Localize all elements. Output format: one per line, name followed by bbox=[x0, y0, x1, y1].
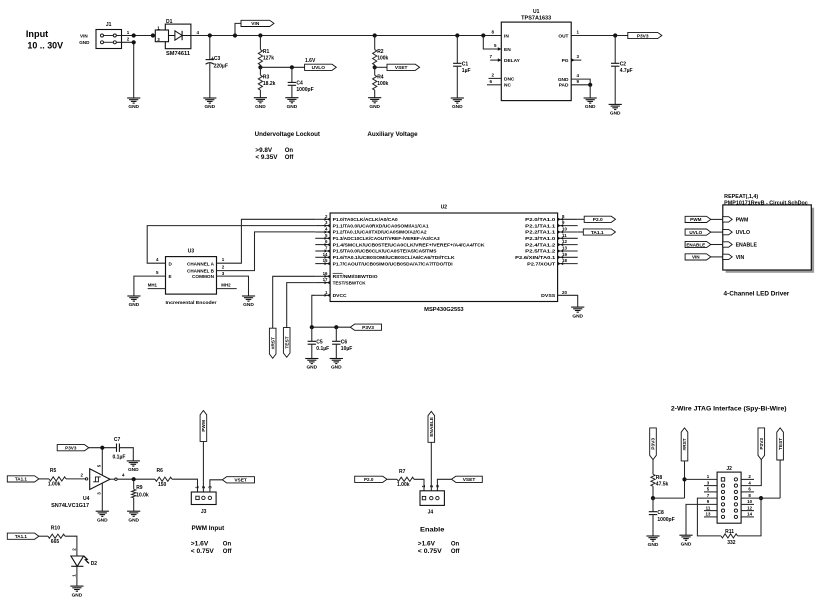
svg-text:P2.1/TA1.1: P2.1/TA1.1 bbox=[525, 223, 556, 228]
wire U2 RST to port bbox=[273, 276, 316, 328]
svg-text:DELAY: DELAY bbox=[504, 58, 521, 64]
svg-text:TEST: TEST bbox=[778, 438, 784, 450]
J2 pin 4 bbox=[734, 484, 737, 487]
svg-text:P1.1/TA0.0/UCA0RXD/UCA0SOMI/A1: P1.1/TA0.0/UCA0RXD/UCA0SOMI/A1/CA1 bbox=[333, 223, 429, 228]
svg-text:1.6V: 1.6V bbox=[305, 58, 316, 64]
U3 pin MH1 bbox=[148, 288, 166, 290]
svg-text:C1: C1 bbox=[462, 61, 469, 67]
pin 7 DELAY stub bbox=[490, 59, 501, 61]
U2 pin 19 P2.6 bbox=[558, 256, 578, 258]
svg-text:1.00k: 1.00k bbox=[48, 482, 61, 488]
svg-text:47.5k: 47.5k bbox=[656, 482, 669, 488]
wire main rail bbox=[191, 35, 501, 37]
svg-text:PWM Input: PWM Input bbox=[192, 525, 226, 532]
wire U2 TEST to port bbox=[287, 283, 316, 328]
U2 pin 3 P1.1 bbox=[315, 225, 330, 227]
U2 pin 1 DVCC bbox=[315, 294, 330, 296]
svg-text:R1: R1 bbox=[263, 49, 270, 55]
svg-text:P2.5/TA1.2: P2.5/TA1.2 bbox=[525, 249, 556, 254]
svg-text:C4: C4 bbox=[296, 81, 303, 87]
svg-text:DNC: DNC bbox=[504, 76, 515, 82]
wire U3 E to ground bbox=[134, 276, 166, 296]
wire U3 D to U2 P1.1 bbox=[147, 226, 315, 264]
U2 pin 7 P1.5 bbox=[315, 250, 330, 252]
svg-text:UVLO: UVLO bbox=[312, 65, 326, 71]
svg-text:P3V3: P3V3 bbox=[362, 325, 374, 331]
power flag P3V3 DVCC bbox=[350, 324, 381, 330]
svg-text:E: E bbox=[169, 274, 172, 279]
pin 3 PG stub bbox=[571, 59, 581, 61]
wire VSET to J3 bbox=[210, 480, 222, 496]
svg-text:R4: R4 bbox=[377, 74, 384, 80]
pin 2 DNC stub bbox=[489, 77, 502, 79]
capacitor C2 4.7uF bbox=[613, 33, 617, 37]
port VSET J4 bbox=[452, 476, 483, 482]
svg-text:#RST: #RST bbox=[270, 337, 276, 349]
ground U3 COMMON bbox=[242, 295, 255, 297]
node UVLO divider bbox=[258, 65, 262, 69]
wire U1 GND pin bbox=[571, 79, 590, 85]
capacitor C4 1000pF bbox=[290, 65, 294, 69]
svg-text:127k: 127k bbox=[263, 55, 274, 61]
wire #RST to J2 pin1 bbox=[684, 461, 686, 498]
ground U3 E bbox=[127, 295, 140, 297]
svg-text:10.0k: 10.0k bbox=[136, 492, 149, 498]
wire VSET to J4 bbox=[437, 479, 451, 496]
wire J1 pin1 to D1 bbox=[116, 35, 155, 37]
port PWM vertical bbox=[200, 411, 207, 442]
resistor R10 665 bbox=[39, 535, 48, 537]
svg-text:14: 14 bbox=[323, 252, 328, 257]
capacitor C3 220uF bbox=[208, 33, 212, 37]
connector J3 bbox=[191, 492, 216, 505]
J2 pin 7 bbox=[721, 497, 724, 500]
svg-text:VIN: VIN bbox=[80, 33, 88, 38]
U2 RST overline bbox=[333, 272, 343, 274]
encoder U3 bbox=[166, 257, 217, 295]
svg-text:GND: GND bbox=[287, 104, 298, 110]
resistor R9 10.0k bbox=[133, 479, 135, 489]
resistor R5 1.00k bbox=[39, 478, 49, 480]
capacitor C1 1uF bbox=[455, 33, 459, 37]
svg-text:18.2k: 18.2k bbox=[263, 81, 276, 87]
connector J1 bbox=[96, 30, 122, 49]
svg-text:< 0.75V: < 0.75V bbox=[418, 549, 442, 555]
power flag VIN bbox=[233, 33, 237, 37]
U2 pin 14 P1.6 bbox=[315, 256, 330, 258]
wire U3 COMMON to ground bbox=[217, 276, 249, 296]
wire J2 pin9 to ground bbox=[686, 504, 717, 535]
svg-text:DVSS: DVSS bbox=[541, 293, 555, 298]
port TA1.1 bbox=[578, 231, 584, 233]
sheet port UVLO bbox=[723, 229, 732, 234]
J2 pin 6 bbox=[734, 490, 737, 493]
connector J4 bbox=[420, 491, 444, 506]
ground C3 bbox=[203, 97, 216, 99]
svg-text:GND: GND bbox=[452, 104, 463, 110]
svg-text:Off: Off bbox=[285, 155, 295, 161]
svg-text:P1.2/TA0.1/UCA0TXD/UCA0SIMO/A2: P1.2/TA0.1/UCA0TXD/UCA0SIMO/A2/CA2 bbox=[333, 230, 427, 235]
svg-text:J1: J1 bbox=[106, 22, 112, 28]
port #RST vertical bbox=[269, 328, 276, 358]
wire EN branch bbox=[481, 33, 485, 37]
svg-text:P2.6/XIN/TA0.1: P2.6/XIN/TA0.1 bbox=[515, 255, 556, 260]
svg-text:1.00k: 1.00k bbox=[397, 482, 410, 488]
capacitor C5 0.1uF bbox=[311, 327, 313, 341]
U2 pin 8 P2.0 bbox=[558, 218, 578, 220]
svg-text:UVLO: UVLO bbox=[689, 230, 702, 235]
J2 pin 13 bbox=[721, 515, 724, 518]
ground R4 bbox=[368, 97, 381, 99]
svg-text:R11: R11 bbox=[725, 529, 734, 535]
U2 pin 4 P1.2 bbox=[315, 231, 330, 233]
svg-text:ENABLE: ENABLE bbox=[429, 416, 435, 437]
svg-text:NC: NC bbox=[504, 83, 511, 89]
svg-text:TEST: TEST bbox=[284, 336, 290, 348]
wire U1 PAD pin bbox=[571, 84, 590, 86]
svg-text:20: 20 bbox=[562, 290, 567, 295]
wire ENABLE to sheet bbox=[711, 244, 723, 246]
svg-text:VIN: VIN bbox=[692, 255, 700, 260]
U2 pin 6 P1.4 bbox=[315, 244, 330, 246]
svg-text:PWM: PWM bbox=[736, 217, 749, 223]
capacitor C7 0.1uF bbox=[116, 444, 118, 452]
U2 pin 13 P2.5 bbox=[558, 250, 578, 252]
svg-text:GND: GND bbox=[72, 592, 83, 598]
svg-text:P1.7/CAOUT/UCB0SIMO/UCB0SDA/A7: P1.7/CAOUT/UCB0SIMO/UCB0SDA/A7/CA7/TDO/T… bbox=[333, 261, 453, 266]
svg-text:R9: R9 bbox=[136, 485, 143, 491]
svg-text:P2.0/TA1.0: P2.0/TA1.0 bbox=[525, 217, 556, 222]
svg-text:< 9.35V: < 9.35V bbox=[255, 155, 277, 161]
svg-text:OUT: OUT bbox=[558, 33, 568, 39]
svg-text:Undervoltage Lockout: Undervoltage Lockout bbox=[255, 132, 320, 138]
svg-text:GND: GND bbox=[79, 40, 90, 45]
J2 pin 14 bbox=[734, 515, 737, 518]
wire D2 to ground bbox=[76, 566, 78, 586]
svg-text:GND: GND bbox=[97, 517, 108, 523]
svg-text:220µF: 220µF bbox=[214, 63, 228, 69]
svg-text:GND: GND bbox=[585, 104, 596, 110]
svg-text:REPEAT(,1,4): REPEAT(,1,4) bbox=[724, 194, 758, 200]
wire J2 pin8 to TEST bbox=[741, 497, 780, 499]
U2 pin 9 P2.1 bbox=[558, 225, 578, 227]
svg-text:Auxiliary Voltage: Auxiliary Voltage bbox=[367, 132, 418, 138]
resistor R6 150 bbox=[155, 477, 172, 481]
svg-text:R8: R8 bbox=[656, 475, 663, 481]
svg-text:PWM: PWM bbox=[690, 217, 701, 222]
svg-text:R3: R3 bbox=[263, 74, 270, 80]
svg-text:+C3: +C3 bbox=[211, 56, 221, 62]
svg-text:J3: J3 bbox=[201, 509, 207, 515]
LED D2 bbox=[71, 556, 84, 566]
svg-text:PMP10171RevB - Circuit.SchDoc: PMP10171RevB - Circuit.SchDoc bbox=[724, 200, 808, 206]
resistor R1 127k bbox=[258, 33, 262, 37]
svg-text:18: 18 bbox=[562, 258, 567, 263]
ground C7 bbox=[127, 460, 140, 462]
svg-text:14: 14 bbox=[747, 512, 752, 517]
svg-text:16: 16 bbox=[323, 271, 328, 276]
svg-text:PWM: PWM bbox=[201, 420, 207, 432]
svg-text:12: 12 bbox=[747, 505, 752, 510]
U2 pin 10 P2.2 bbox=[558, 231, 578, 233]
svg-text:P1.5/TA0.0/UCB0CLK/UCA0STE/A5/: P1.5/TA0.0/UCB0CLK/UCA0STE/A5/CA5/TMS bbox=[333, 249, 437, 254]
port P2.0 to R7 bbox=[355, 476, 387, 482]
svg-text:MH2: MH2 bbox=[221, 283, 231, 288]
wire PWM to sheet bbox=[711, 218, 723, 220]
svg-text:1µF: 1µF bbox=[462, 68, 471, 74]
svg-text:>1.6V: >1.6V bbox=[418, 541, 435, 547]
node VSET divider bbox=[373, 65, 377, 69]
port VSET J3 bbox=[222, 477, 254, 483]
svg-text:13: 13 bbox=[562, 246, 567, 251]
svg-text:1000pF: 1000pF bbox=[296, 87, 313, 93]
svg-text:UVLO: UVLO bbox=[736, 230, 750, 236]
svg-text:J2: J2 bbox=[726, 466, 732, 472]
svg-text:GND: GND bbox=[129, 302, 140, 308]
wire U1 OUT to P3V3 bbox=[571, 35, 628, 37]
svg-text:GND: GND bbox=[128, 467, 139, 473]
svg-text:P1.3/ADC10CLK/CAOUT/VREF-/VERE: P1.3/ADC10CLK/CAOUT/VREF-/VEREF-/A3/CA3 bbox=[333, 236, 440, 241]
svg-text:On: On bbox=[451, 541, 460, 547]
J2 pin 9 bbox=[721, 503, 724, 506]
svg-text:P3V3: P3V3 bbox=[759, 438, 765, 450]
svg-text:ENABLE: ENABLE bbox=[736, 243, 758, 249]
svg-text:U4: U4 bbox=[83, 496, 90, 502]
svg-text:MSP430G2553: MSP430G2553 bbox=[424, 307, 464, 313]
svg-text:DVCC: DVCC bbox=[333, 293, 348, 298]
port #RST JTAG bbox=[681, 428, 688, 461]
svg-text:SN74LVC1G17: SN74LVC1G17 bbox=[51, 503, 89, 509]
J2 pin 2 bbox=[734, 478, 737, 481]
wire J2 pin7 to R11 bbox=[697, 498, 721, 536]
svg-text:R10: R10 bbox=[51, 526, 60, 532]
svg-text:10: 10 bbox=[562, 227, 567, 232]
svg-text:D1: D1 bbox=[166, 19, 173, 25]
svg-text:C8: C8 bbox=[657, 510, 664, 516]
svg-text:19: 19 bbox=[562, 252, 567, 257]
U2 pin 2 P1.0 bbox=[315, 218, 330, 220]
J2 pin 10 bbox=[734, 503, 737, 506]
J2 pin 8 bbox=[734, 497, 737, 500]
svg-text:150: 150 bbox=[158, 482, 167, 488]
wire U4 output bbox=[115, 478, 117, 480]
wire U3 CHANNEL B to U2 P1.2 bbox=[217, 232, 316, 271]
svg-text:4.7µF: 4.7µF bbox=[620, 68, 633, 74]
svg-text:100k: 100k bbox=[377, 81, 388, 87]
svg-text:P1.6/TA0.1/UCB0SOMI/UCB0SCL/A6: P1.6/TA0.1/UCB0SOMI/UCB0SCL/A6/CA6/TDI/T… bbox=[333, 255, 456, 260]
node TEST bbox=[759, 496, 763, 500]
port ENABLE vertical bbox=[428, 411, 435, 442]
svg-text:GND: GND bbox=[648, 542, 659, 548]
ground C5 bbox=[305, 358, 318, 360]
U2 pin 18 P2.7 bbox=[558, 263, 578, 265]
svg-text:P2.7/XOUT: P2.7/XOUT bbox=[527, 261, 555, 266]
svg-text:GND: GND bbox=[369, 104, 380, 110]
ground J1 bbox=[127, 97, 140, 99]
sheet port ENABLE bbox=[723, 242, 732, 247]
svg-text:Enable: Enable bbox=[420, 527, 445, 534]
capacitor C6 10uF bbox=[335, 327, 337, 341]
wire U3 CHANNEL A to U2 P1.0 bbox=[217, 219, 316, 263]
ground U1 PAD bbox=[584, 97, 597, 99]
resistor R7 1.00k bbox=[387, 478, 397, 480]
svg-text:C7: C7 bbox=[114, 437, 121, 443]
U2 pin 16 RST bbox=[315, 275, 330, 277]
wire UVLO to sheet bbox=[711, 231, 723, 233]
ground D2 bbox=[70, 585, 83, 587]
svg-text:U2: U2 bbox=[441, 204, 448, 210]
J2 pin 5 bbox=[721, 490, 724, 493]
svg-text:GND: GND bbox=[255, 104, 266, 110]
svg-text:P2.2/TA1.1: P2.2/TA1.1 bbox=[525, 230, 556, 235]
svg-text:U1: U1 bbox=[533, 9, 540, 15]
svg-text:U3: U3 bbox=[188, 249, 195, 255]
svg-text:PG: PG bbox=[562, 58, 569, 64]
svg-text:GND: GND bbox=[558, 77, 569, 83]
ground C6 bbox=[330, 358, 343, 360]
svg-text:Input: Input bbox=[26, 29, 49, 40]
port PWM flag bbox=[685, 216, 711, 222]
svg-text:SM74611: SM74611 bbox=[166, 51, 190, 57]
svg-text:P2.3/TA1.0: P2.3/TA1.0 bbox=[525, 236, 556, 241]
svg-text:>1.6V: >1.6V bbox=[191, 541, 209, 547]
svg-text:R6: R6 bbox=[157, 468, 164, 474]
svg-text:GND: GND bbox=[306, 365, 317, 371]
svg-text:GND: GND bbox=[681, 541, 692, 547]
ground C8 bbox=[646, 535, 659, 537]
svg-text:ENABLE: ENABLE bbox=[686, 242, 705, 247]
ground C1 bbox=[451, 97, 464, 99]
svg-text:P2.0: P2.0 bbox=[593, 217, 603, 223]
svg-text:100k: 100k bbox=[377, 55, 388, 61]
svg-text:GND: GND bbox=[243, 302, 254, 308]
svg-text:P3V3: P3V3 bbox=[651, 438, 657, 450]
svg-text:0.1µF: 0.1µF bbox=[316, 346, 329, 352]
J2 pin 3 bbox=[721, 484, 724, 487]
svg-text:MH1: MH1 bbox=[148, 283, 158, 288]
svg-text:TPS7A1633: TPS7A1633 bbox=[521, 15, 551, 21]
svg-text:Incremental Encoder: Incremental Encoder bbox=[166, 300, 217, 305]
connector J2 bbox=[717, 472, 741, 523]
ground C4 bbox=[285, 97, 298, 99]
svg-text:VSET: VSET bbox=[463, 477, 476, 483]
svg-text:CHANNEL B: CHANNEL B bbox=[187, 269, 215, 274]
svg-text:GND: GND bbox=[610, 111, 621, 117]
J2 pin 1 bbox=[721, 478, 724, 481]
svg-text:2-Wire JTAG Interface (Spy-Bi-: 2-Wire JTAG Interface (Spy-Bi-Wire) bbox=[671, 405, 787, 412]
svg-text:On: On bbox=[285, 148, 294, 154]
svg-text:#RST: #RST bbox=[682, 438, 688, 450]
wire P3V3 to J2 pin4 bbox=[741, 460, 761, 486]
svg-text:VIN: VIN bbox=[736, 255, 745, 261]
svg-text:On: On bbox=[223, 541, 232, 547]
svg-text:CHANNEL A: CHANNEL A bbox=[187, 261, 215, 266]
svg-text:Off: Off bbox=[451, 549, 461, 555]
svg-text:P1.4/SMCLK/UCB0STE/UCA0CLK/VRE: P1.4/SMCLK/UCB0STE/UCA0CLK/VREF+/VEREF+/… bbox=[333, 242, 486, 247]
svg-text:C6: C6 bbox=[341, 339, 348, 345]
svg-text:D2: D2 bbox=[91, 561, 98, 567]
wire ENABLE to J4 bbox=[430, 442, 432, 496]
wire J1 pin2 to ground bbox=[116, 42, 133, 98]
pin 6 NC stub bbox=[487, 84, 501, 86]
svg-text:C2: C2 bbox=[620, 61, 627, 67]
svg-text:P3V3: P3V3 bbox=[65, 446, 77, 451]
ground R3 bbox=[254, 97, 267, 99]
svg-text:GND: GND bbox=[331, 365, 342, 371]
svg-text:R5: R5 bbox=[50, 468, 57, 474]
svg-text:0.1µF: 0.1µF bbox=[113, 454, 126, 460]
svg-text:10µF: 10µF bbox=[341, 346, 353, 352]
diode D1 SM74611 bbox=[165, 24, 191, 49]
J2 pin 11 bbox=[721, 509, 724, 512]
J2 pin 12 bbox=[734, 509, 737, 512]
wire DVCC supply bbox=[312, 295, 316, 327]
wire VIN to sheet bbox=[711, 256, 723, 258]
svg-text:P1.0/TA0CLK/ACLK/A0/CA0: P1.0/TA0CLK/ACLK/A0/CA0 bbox=[333, 217, 399, 222]
svg-text:TA1.1: TA1.1 bbox=[15, 477, 28, 482]
svg-text:PAD: PAD bbox=[559, 83, 569, 89]
ground C2 bbox=[609, 103, 622, 105]
svg-text:10 .. 30V: 10 .. 30V bbox=[27, 41, 63, 52]
svg-text:15: 15 bbox=[323, 258, 328, 263]
svg-text:17: 17 bbox=[323, 277, 328, 282]
U2 pin 5 P1.3 bbox=[315, 237, 330, 239]
svg-text:EN: EN bbox=[504, 47, 511, 53]
port VSET bbox=[387, 64, 420, 70]
svg-text:TA1.1: TA1.1 bbox=[591, 230, 604, 236]
ground U4 bbox=[96, 510, 109, 512]
svg-text:RST/NMI/SBWTDIO: RST/NMI/SBWTDIO bbox=[333, 274, 378, 279]
ground DVSS bbox=[571, 306, 584, 308]
MCU U2 MSP430G2553 bbox=[330, 213, 557, 302]
svg-text:P2.4/TA1.2: P2.4/TA1.2 bbox=[525, 242, 556, 247]
svg-text:C5: C5 bbox=[316, 339, 323, 345]
sheet port VIN bbox=[723, 254, 732, 259]
svg-text:P2.0: P2.0 bbox=[364, 477, 374, 482]
svg-text:J4: J4 bbox=[428, 510, 434, 516]
buffer U4 SN74LVC1G17 bbox=[85, 478, 87, 480]
U3 pin MH2 bbox=[217, 288, 237, 290]
port ENABLE flag bbox=[685, 241, 711, 247]
resistor R3 18.2k bbox=[259, 67, 261, 75]
svg-text:TA1.1: TA1.1 bbox=[15, 534, 28, 539]
svg-text:IN: IN bbox=[504, 33, 509, 39]
svg-text:VSET: VSET bbox=[234, 478, 247, 484]
svg-text:GND: GND bbox=[128, 104, 139, 110]
svg-text:10: 10 bbox=[747, 499, 752, 504]
power flag P3V3 JTAG right bbox=[758, 428, 765, 460]
power flag P3V3 output bbox=[628, 32, 662, 38]
svg-text:COMMON: COMMON bbox=[192, 274, 215, 279]
node RST pullup bbox=[651, 496, 655, 500]
svg-text:VIN: VIN bbox=[251, 21, 260, 27]
ground R9 bbox=[127, 510, 140, 512]
port VIN flag bbox=[685, 254, 711, 260]
port TA1.1 to R5 bbox=[7, 476, 39, 482]
port TEST JTAG bbox=[777, 428, 784, 460]
svg-text:13: 13 bbox=[706, 512, 711, 517]
U2 pin 12 P2.4 bbox=[558, 244, 578, 246]
port P2.0 bbox=[578, 218, 585, 220]
port TEST vertical bbox=[283, 328, 290, 358]
svg-text:R7: R7 bbox=[399, 469, 406, 475]
svg-text:1000pF: 1000pF bbox=[657, 517, 674, 523]
resistor R4 100k bbox=[374, 67, 376, 75]
svg-text:P3V3: P3V3 bbox=[637, 33, 649, 39]
capacitor C8 1000pF bbox=[652, 498, 654, 512]
svg-text:4-Channel LED Driver: 4-Channel LED Driver bbox=[724, 290, 790, 297]
wire PWM to J3 bbox=[202, 441, 204, 496]
